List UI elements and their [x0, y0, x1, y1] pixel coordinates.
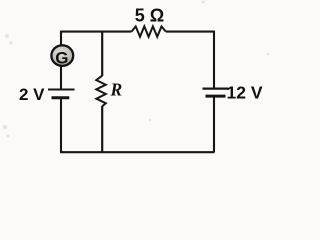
svg-text:2 V: 2 V	[19, 85, 45, 104]
galvanometer G	[51, 45, 73, 66]
wire top-left vertical	[60, 31, 62, 45]
svg-text:R: R	[110, 80, 123, 100]
wire middle branch upper	[101, 31, 103, 76]
svg-text:G: G	[55, 49, 68, 68]
wire middle branch lower	[101, 106, 103, 152]
wire right branch lower	[213, 96, 215, 152]
wire galvanometer to battery	[60, 67, 62, 90]
scan noise speckles	[3, 1, 269, 138]
wire right branch upper	[213, 31, 215, 88]
resistor R zigzag	[96, 76, 106, 107]
svg-text:5 Ω: 5 Ω	[135, 6, 164, 26]
battery 12V short plate	[206, 95, 226, 98]
battery 2V short plate	[52, 96, 70, 99]
resistor 5ohm zigzag	[132, 26, 166, 36]
battery 2V long plate	[48, 89, 75, 91]
wire left branch lower	[60, 99, 62, 152]
bottom wire	[60, 151, 215, 153]
wire top-left to resistor (top wire left segment)	[61, 31, 132, 33]
battery 12V long plate	[203, 87, 229, 89]
wire resistor to top-right corner	[166, 31, 214, 33]
svg-text:12 V: 12 V	[227, 82, 263, 102]
